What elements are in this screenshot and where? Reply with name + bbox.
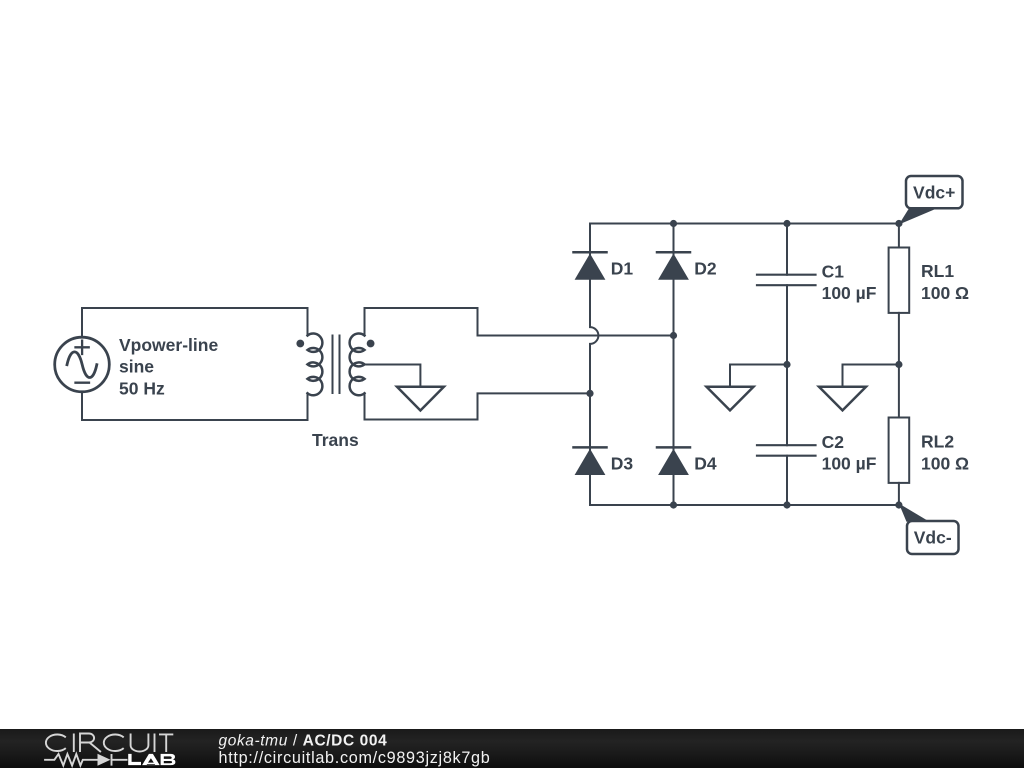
svg-text:RL1: RL1 [921, 261, 954, 281]
svg-text:D3: D3 [611, 454, 634, 474]
svg-text:100 Ω: 100 Ω [921, 454, 969, 474]
svg-text:D2: D2 [694, 258, 717, 278]
svg-text:sine: sine [119, 357, 154, 377]
svg-text:Trans: Trans [312, 430, 359, 450]
svg-text:C1: C1 [822, 262, 845, 282]
svg-text:goka-tmu / AC/DC 004: goka-tmu / AC/DC 004 [219, 732, 388, 749]
svg-text:C2: C2 [822, 432, 845, 452]
svg-text:http://circuitlab.com/c9893jzj: http://circuitlab.com/c9893jzj8k7gb [219, 749, 491, 767]
svg-text:D1: D1 [611, 258, 634, 278]
svg-text:Vdc-: Vdc- [914, 528, 952, 548]
svg-text:Vpower-line: Vpower-line [119, 335, 218, 355]
svg-text:100 µF: 100 µF [822, 283, 877, 303]
svg-text:50 Hz: 50 Hz [119, 378, 165, 398]
svg-text:D4: D4 [694, 454, 717, 474]
svg-text:100 µF: 100 µF [822, 454, 877, 474]
svg-text:Vdc+: Vdc+ [913, 182, 955, 202]
svg-text:RL2: RL2 [921, 431, 954, 451]
svg-text:100 Ω: 100 Ω [921, 283, 969, 303]
